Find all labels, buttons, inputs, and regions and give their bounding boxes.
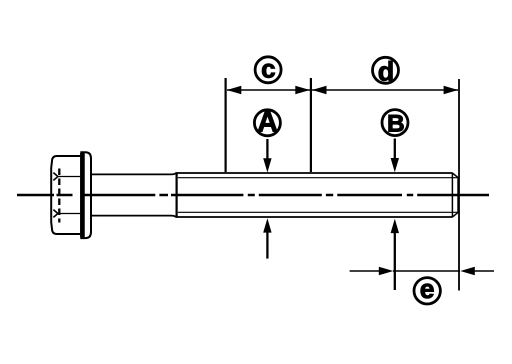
head chamfer chevron lower: [53, 210, 58, 218]
arrowhead B up: [391, 219, 399, 233]
arrowhead e left: [379, 267, 394, 275]
leader line B up: [394, 231, 396, 290]
thread start vertical: [176, 173, 178, 217]
head facet line upper: [58, 176, 80, 178]
thread end chamfer top diagonal: [452, 173, 458, 178]
arrowhead c right: [295, 86, 310, 94]
balloon circle e: [414, 278, 440, 304]
shank bottom line: [92, 216, 176, 217]
dimension line e middle span: [393, 270, 460, 272]
arrowhead d left: [312, 86, 327, 94]
thread end chamfer bottom diagonal: [452, 212, 458, 217]
bolt head outline: [51, 156, 80, 234]
svg-text:d: d: [378, 57, 395, 87]
svg-text:B: B: [387, 111, 405, 138]
arrowhead A down: [263, 158, 271, 172]
arrowhead e right: [460, 267, 475, 275]
dimension line e right tail: [474, 270, 495, 272]
balloon circle c: [255, 57, 281, 83]
extension line left (dim c): [225, 78, 227, 172]
dimension line c: [227, 89, 310, 91]
arrowhead A up: [263, 218, 271, 232]
balloon circle B: [382, 110, 408, 136]
arrowhead B down: [391, 158, 399, 172]
balloon circle A: [254, 110, 280, 136]
shank top line: [92, 173, 176, 174]
arrowhead c left: [227, 86, 242, 94]
balloon circle d: [373, 57, 399, 83]
thread minor diameter bottom: [178, 211, 458, 213]
centerline: [17, 194, 489, 197]
leader line A down: [266, 139, 268, 160]
svg-text:e: e: [420, 274, 435, 304]
thread minor diameter top: [178, 177, 458, 179]
leader line B down: [394, 139, 396, 160]
thread major diameter top: [176, 172, 453, 174]
head chamfer chevron upper: [53, 173, 58, 181]
flange washer face thick line: [80, 153, 85, 237]
svg-text:A: A: [257, 107, 278, 139]
thread end chamfer vertical: [451, 173, 453, 217]
svg-text:c: c: [261, 54, 275, 84]
head facet line lower: [58, 213, 80, 215]
thread major diameter bottom: [176, 216, 453, 218]
flange washer outline: [80, 152, 91, 238]
dimension line e left tail: [350, 270, 381, 272]
arrowhead d right: [444, 86, 459, 94]
head hidden dashed line: [58, 169, 60, 223]
dimension line d: [312, 89, 458, 91]
extension line right (dims d/e): [458, 79, 460, 291]
bolt end face: [457, 178, 459, 213]
extension line middle (dims c/d): [310, 78, 312, 172]
leader line A up: [266, 231, 268, 259]
